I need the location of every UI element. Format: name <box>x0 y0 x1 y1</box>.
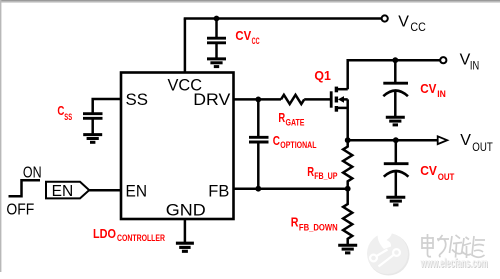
wire drain to VIN rail <box>348 60 441 89</box>
ground for CV_OUT <box>386 197 405 205</box>
pin SS label <box>126 90 149 109</box>
wire EN flag to EN pin <box>89 189 121 192</box>
ground for Css <box>83 135 102 143</box>
label Q1 <box>314 68 331 83</box>
ground for CV_IN <box>386 117 405 125</box>
label CV_OUT <box>420 163 455 182</box>
pin GND label <box>166 201 206 220</box>
ground for R_FB_DOWN <box>338 245 357 253</box>
label V_IN <box>460 51 480 72</box>
wire junction to C_OPTIONAL <box>257 99 260 136</box>
label LDO_CONTROLLER <box>93 226 165 243</box>
label CV_IN <box>420 81 446 99</box>
ground for GND pin <box>176 243 194 251</box>
label C_OPTIONAL <box>273 133 317 150</box>
wire GND pin to ground <box>184 219 187 243</box>
wire VCC pin to top rail <box>184 19 187 73</box>
resistor R_FB_UP <box>343 140 352 189</box>
capacitor CV_OUT polarized <box>384 140 409 196</box>
pin DRV label <box>193 90 231 109</box>
terminal arrow V_OUT <box>438 136 448 144</box>
node junction DRV / C_OPTIONAL <box>255 97 261 103</box>
label OFF <box>6 201 34 218</box>
EN input flag <box>46 182 89 199</box>
transistor Q1 PMOS <box>331 87 348 112</box>
label CVcc <box>235 28 260 46</box>
wire DRV pin to gate <box>234 98 282 101</box>
node junction on VCC rail <box>214 16 220 22</box>
label V_OUT <box>460 132 493 154</box>
capacitor C_OPTIONAL <box>249 137 269 188</box>
pin FB label <box>208 182 229 201</box>
node junction VOUT/CVOUT <box>393 137 399 143</box>
pin VCC label <box>168 76 203 95</box>
resistor R_FB_DOWN <box>343 189 352 245</box>
label R_FB_DOWN <box>291 215 338 233</box>
wire SS pin to Css <box>93 99 121 113</box>
ground for CVcc <box>207 59 226 67</box>
wire source to VOUT rail <box>348 99 438 140</box>
top gray border (decorative) <box>0 0 500 2</box>
label R_FB_UP <box>307 164 337 181</box>
capacitor CV_IN polarized <box>383 60 408 116</box>
wire top VCC rail <box>184 17 382 20</box>
svg-text:www.elecfans.com: www.elecfans.com <box>420 256 488 270</box>
wire R_GATE to gate bar <box>304 98 330 101</box>
node junction on VIN rail <box>392 57 398 63</box>
capacitor CVcc <box>207 19 226 59</box>
node junction VOUT/RFB <box>345 137 351 143</box>
terminal V_IN <box>440 57 446 63</box>
ON/OFF step waveform <box>9 180 41 196</box>
terminal V_CC <box>382 15 388 21</box>
pin EN label <box>126 182 148 201</box>
IC U1 LDO controller box <box>121 73 234 220</box>
label Css <box>57 103 72 122</box>
label V_CC <box>398 14 426 34</box>
resistor R_GATE <box>281 95 304 104</box>
node junction FB/RFB <box>345 186 351 192</box>
label ON <box>23 164 42 181</box>
wire FB pin to RFB node <box>234 187 348 190</box>
label R_GATE <box>278 110 304 127</box>
capacitor Css <box>83 114 103 134</box>
label EN in flag <box>52 183 74 200</box>
node junction C_OPTIONAL / FB <box>255 186 261 192</box>
